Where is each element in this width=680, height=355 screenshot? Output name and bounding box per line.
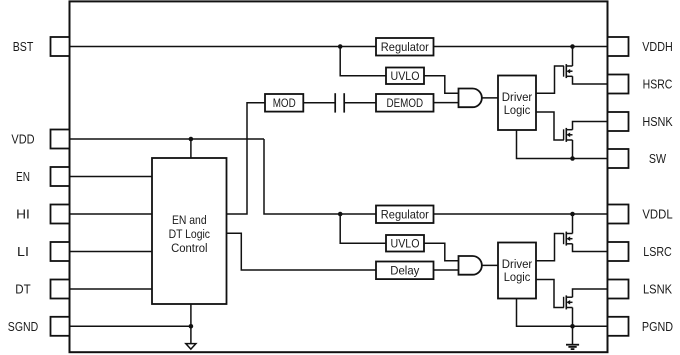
svg-text:Regulator: Regulator [381,40,429,54]
block U1 EN and DT Logic Control [152,158,227,304]
node VDDH/drain junction [570,44,575,49]
svg-text:VDDL: VDDL [642,208,672,222]
block UVLO (high side) [386,68,424,85]
pin box PGND [608,317,629,336]
wire low-side Regulator to VDDL [434,213,608,215]
svg-text:MOD: MOD [273,96,296,110]
wire Driver Logic to SW line [517,130,608,159]
wire DEMOD to AND gate [434,102,459,104]
wire Delay to AND gate [434,269,459,271]
svg-text:EN andDT LogicControl: EN andDT LogicControl [169,213,210,255]
wire Q3 source to LSRC [573,244,608,252]
svg-text:LI: LI [17,245,29,259]
wire MOD to capacitor [303,102,335,104]
block MOD [265,94,303,112]
transistor Q3 (LSRC source FET) [564,232,573,246]
ground PGND (earth ground) [566,345,579,349]
wire Driver Logic to Q3 gate [536,234,564,261]
pin box EN [51,167,70,186]
wire capacitor to DEMOD [344,102,376,104]
pin box VDDH [608,37,629,56]
node VDD/logic branch [189,137,194,142]
wire logic block LI output to Delay [227,233,377,270]
svg-text:PGND: PGND [642,320,673,334]
wire Q3 drain to VDDL rail [572,214,574,234]
pin label SW [649,152,666,166]
wire Q2 source to SW node [572,140,574,159]
wire BST to high-side Regulator [70,46,377,48]
node BST/UVLO branch [338,44,343,49]
pin box BST [51,37,70,56]
pin label DT [15,283,31,297]
svg-text:DEMOD: DEMOD [387,96,424,110]
pin label EN [16,170,30,184]
node SW/source junction [570,156,575,161]
svg-text:DT: DT [15,283,31,297]
svg-text:SGND: SGND [8,320,38,334]
wire SGND node down to signal ground [190,326,192,343]
node PGND junction [570,324,575,329]
node VDDL/UVLO branch [338,212,343,217]
pin box DT [51,280,70,299]
svg-text:BST: BST [13,40,34,54]
pin label LI [17,245,29,259]
wire Driver Logic to Q2 gate [536,112,564,140]
pin box SGND [51,317,70,336]
svg-text:Regulator: Regulator [381,208,429,222]
pin label HSNK [642,115,673,129]
pin label VDDH [642,40,673,54]
wire VDD elbow down to low-side Regulator [264,139,376,214]
svg-text:LSNK: LSNK [643,283,673,297]
svg-text:LSRC: LSRC [643,245,672,259]
wire Q1 source to HSRC [573,76,608,84]
transistor Q1 (HSRC source FET) [564,64,573,78]
wire EN-DT logic block bottom to SGND node [190,304,192,326]
wire VDD branch down to EN-DT logic block [190,139,192,158]
block Regulator (high side) [376,38,434,56]
pin box LSRC [608,242,629,261]
pin box VDD [51,130,70,149]
wire AND gate to Driver Logic [482,97,498,99]
wire Q4 source to PGND node [572,308,574,327]
pin box HI [51,205,70,224]
pin label VDD [11,133,34,147]
ground SGND (signal ground arrow) [186,344,196,350]
svg-text:VDD: VDD [11,133,34,147]
pin label SGND [8,320,38,334]
pin box SW [608,149,629,168]
wire DT input [70,288,153,290]
wire HI input [70,213,153,215]
wire Driver Logic to Q1 gate [536,66,564,93]
svg-text:HSNK: HSNK [642,115,673,129]
pin box HSNK [608,112,629,131]
pin label VDDL [642,208,672,222]
pin label BST [13,40,34,54]
pin box LSNK [608,280,629,299]
wire PGND node to power ground [572,326,574,344]
svg-text:Delay: Delay [390,264,420,278]
pin box VDDL [608,205,629,224]
transistor Q2 (HSNK sink FET) [564,128,573,142]
pin label LSRC [643,245,672,259]
wire Driver Logic to PGND line [517,299,608,327]
wire SGND [70,325,191,327]
block Regulator (low side) [376,206,434,224]
wire logic block HI output to MOD [227,103,266,214]
block UVLO (low side) [386,235,424,252]
wire Q4 drain to LSNK [573,289,608,297]
wire AND gate to Driver Logic (low side) [482,264,498,266]
svg-text:HI: HI [16,208,30,222]
AND gate (low side) [459,256,482,275]
transistor Q4 (LSNK sink FET) [564,295,573,309]
wire VDDL branch to low-side UVLO [340,214,386,243]
block DEMOD [376,94,434,112]
node SGND junction [189,324,194,329]
svg-text:VDDH: VDDH [642,40,673,54]
AND gate (high side) [459,89,482,108]
svg-text:UVLO: UVLO [391,69,420,83]
block Delay [376,262,434,280]
wire BST branch to high-side UVLO [340,47,386,76]
wire high-side UVLO to AND gate [424,76,459,93]
node VDDL/drain junction [570,212,575,217]
pin label PGND [642,320,673,334]
svg-text:EN: EN [16,170,30,184]
svg-text:DriverLogic: DriverLogic [502,257,533,284]
svg-text:HSRC: HSRC [643,78,673,92]
wire LI input [70,251,153,253]
wire high-side Regulator to VDDH [434,46,608,48]
pin label LSNK [643,283,673,297]
block Driver Logic (low side) [498,243,536,299]
pin label HI [16,208,30,222]
wire VDD to low-side rail elbow [70,138,265,140]
pin label HSRC [643,78,673,92]
svg-text:UVLO: UVLO [391,237,420,251]
wire EN input [70,176,153,178]
wire Q1 drain to VDDH rail [572,47,574,67]
wire Driver Logic to Q4 gate [536,280,564,308]
capacitor C1 (isolation) [335,93,344,112]
wire low-side UVLO to AND gate [424,243,459,260]
pin box HSRC [608,75,629,94]
wire Q2 drain to HSNK [573,122,608,130]
pin box LI [51,242,70,261]
block Driver Logic (high side) [498,76,536,131]
IC boundary box [70,1,608,352]
svg-text:SW: SW [649,152,666,166]
svg-text:DriverLogic: DriverLogic [502,90,533,117]
